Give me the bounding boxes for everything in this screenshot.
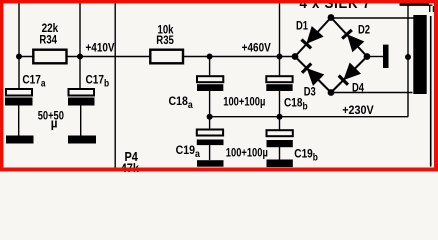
- svg-text:+410V: +410V: [86, 42, 116, 55]
- wire vertical from top at x=19: [18, 4, 20, 90]
- ground bar C17b: [68, 136, 96, 144]
- wire transformer right thin line x=430.7: [430, 16, 432, 167]
- wire C19a bottom lead to ground: [209, 145, 211, 160]
- svg-text:C19a: C19a: [176, 144, 201, 159]
- diode D1: [301, 26, 323, 48]
- wire C17b cap to ground bar: [80, 106, 82, 136]
- svg-text:R35: R35: [156, 34, 174, 47]
- ground bar C19a: [197, 160, 224, 167]
- transformer winding bar: [413, 15, 426, 94]
- wire C18b bottom lead to bus: [279, 91, 281, 117]
- red border frame: [0, 0, 438, 172]
- node dot bridge right: [364, 53, 371, 60]
- diode bridge arm B-R: [331, 57, 367, 93]
- node dot rail x=279.5: [277, 54, 283, 60]
- capacitor C19a: [197, 130, 224, 146]
- svg-text:C18a: C18a: [169, 95, 194, 110]
- svg-text:+460V: +460V: [242, 42, 272, 55]
- wire C18a top lead: [209, 57, 211, 77]
- svg-text:D1: D1: [296, 19, 308, 32]
- resistor R35: [150, 50, 183, 64]
- wire vertical from top at x=279.5: [279, 4, 281, 77]
- diode bridge arm L-T: [295, 18, 331, 57]
- capacitor C18a: [197, 76, 223, 91]
- node dot bus x=209.6: [207, 114, 213, 120]
- node dot transformer lead: [405, 54, 411, 60]
- diode bridge arm L-B: [295, 57, 331, 93]
- wire bridge right node to terminal: [367, 56, 383, 58]
- wire C18a bottom lead to bus: [209, 91, 211, 117]
- terminal bar right of bridge: [383, 45, 389, 68]
- capacitor C18b: [266, 76, 292, 91]
- node dot rail x=19: [16, 54, 22, 60]
- svg-text:D2: D2: [358, 23, 370, 36]
- wire +230V upper line bridge bottom to transformer: [331, 92, 413, 94]
- node dot bridge top: [328, 14, 335, 21]
- svg-text:D4: D4: [352, 81, 364, 94]
- svg-text:100+100µ: 100+100µ: [223, 95, 265, 108]
- capacitor C17b: [68, 89, 95, 106]
- diode D2: [342, 30, 364, 52]
- svg-text:D3: D3: [304, 85, 316, 98]
- capacitor C19b: [267, 130, 293, 147]
- wire transformer lead vertical x=407.5: [407, 4, 409, 117]
- node dot rail x=80: [77, 54, 83, 60]
- node dot rail x=209.6: [207, 54, 213, 60]
- wire C19a top lead: [209, 117, 211, 130]
- node dot bus x=279.5: [277, 114, 283, 120]
- wire C19b bottom lead to ground: [279, 147, 281, 160]
- wire transformer lead top tick: [400, 3, 430, 6]
- diode D3: [302, 64, 324, 86]
- node dot bridge bottom: [328, 89, 335, 96]
- wire bridge top node to transformer bar y=18: [331, 17, 414, 19]
- wire bus +230V lower y=116.7: [210, 116, 409, 118]
- svg-text:100+100µ: 100+100µ: [226, 146, 268, 159]
- svg-text:R34: R34: [39, 33, 57, 46]
- svg-text:+230V: +230V: [342, 104, 374, 117]
- ground bar C17a: [6, 136, 34, 144]
- wire vertical from top at x=80: [79, 4, 81, 90]
- svg-text:µ: µ: [51, 116, 58, 131]
- capacitor C17a: [5, 89, 33, 106]
- wire vertical full height at x=115.5: [114, 4, 116, 168]
- wire main rail +410V/+460V y=56.5: [19, 56, 295, 58]
- wire C17a cap to ground bar: [18, 106, 20, 136]
- diode bridge arm T-R: [331, 18, 367, 57]
- wire C19b top lead: [279, 117, 281, 130]
- ground bar C19b: [267, 160, 293, 168]
- resistor R34: [33, 50, 66, 64]
- node dot bridge left: [292, 53, 299, 60]
- diode D4: [339, 62, 361, 84]
